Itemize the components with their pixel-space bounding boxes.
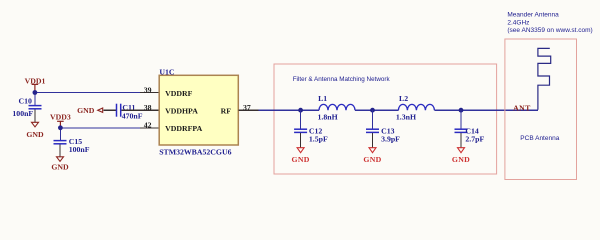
wire L1 to L2 — [355, 109, 398, 111]
svg-text:PCB Antenna: PCB Antenna — [520, 135, 559, 142]
svg-text:GND: GND — [363, 155, 381, 164]
pin C14 to GND — [460, 133, 462, 148]
ground under C14 — [458, 148, 465, 153]
capacitor C11 — [117, 104, 121, 117]
svg-text:GND: GND — [291, 155, 309, 164]
wire junction down to C14 — [460, 110, 462, 129]
svg-text:GND: GND — [77, 106, 95, 115]
wire VDD3 to pin 42 — [60, 127, 140, 129]
ground under C10 — [32, 122, 39, 127]
power port VDD1 — [32, 84, 39, 92]
junction dot VDD1 node — [33, 90, 38, 95]
ground arrow port at C11 — [98, 108, 103, 112]
svg-text:38: 38 — [144, 103, 152, 112]
capacitor C13 — [366, 129, 379, 132]
inductor L2 — [398, 104, 434, 110]
ground under C12 — [297, 148, 304, 153]
svg-text:L2: L2 — [399, 94, 408, 103]
op-amp U1C body — [159, 75, 238, 145]
svg-text:100nF: 100nF — [69, 145, 90, 154]
pin C12 to GND — [300, 133, 302, 148]
pin 42 stub — [140, 127, 159, 129]
antenna meander — [538, 48, 551, 109]
svg-text:39: 39 — [144, 85, 152, 94]
power port VDD3 — [57, 121, 64, 127]
capacitor C10 — [29, 106, 42, 109]
ground under C15 — [57, 157, 64, 162]
svg-text:GND: GND — [26, 130, 44, 139]
svg-text:3.9pF: 3.9pF — [381, 135, 400, 144]
svg-text:VDDRFPA: VDDRFPA — [165, 124, 202, 133]
wire junction down to C13 — [372, 110, 374, 129]
capacitor C12 — [294, 129, 307, 132]
pin 39 stub — [140, 92, 159, 94]
svg-text:GND: GND — [51, 163, 69, 172]
junction node C12 — [298, 108, 303, 113]
pin C13 to GND — [372, 133, 374, 148]
svg-text:RF: RF — [221, 107, 232, 116]
antenna box — [505, 39, 577, 180]
pin C10 to GND — [34, 110, 36, 123]
svg-text:470nF: 470nF — [122, 111, 143, 120]
svg-text:VDD1: VDD1 — [25, 76, 46, 85]
inductor L1 — [319, 104, 355, 110]
svg-text:ANT: ANT — [513, 103, 531, 112]
svg-text:100nF: 100nF — [12, 109, 33, 118]
svg-text:37: 37 — [243, 103, 251, 112]
pin C15 to GND — [59, 145, 61, 157]
capacitor C15 — [54, 141, 67, 144]
svg-text:U1C: U1C — [159, 67, 175, 76]
svg-text:1.8nH: 1.8nH — [318, 113, 338, 122]
svg-text:Meander Antenna: Meander Antenna — [507, 12, 559, 19]
junction dot VDD3 node — [58, 125, 63, 130]
capacitor C14 — [455, 129, 468, 132]
svg-text:Filter & Antenna Matching Netw: Filter & Antenna Matching Network — [293, 76, 391, 83]
junction node C13 — [370, 108, 375, 113]
wire VDD3 junction down to C15 — [59, 128, 61, 141]
svg-text:2.4GHz: 2.4GHz — [507, 19, 529, 26]
svg-text:GND: GND — [452, 155, 470, 164]
svg-text:L1: L1 — [318, 94, 327, 103]
pin C11 to pin 38 — [121, 109, 159, 111]
pin 37 stub — [238, 109, 258, 111]
svg-text:VDDHPA: VDDHPA — [165, 107, 198, 116]
svg-text:VDD3: VDD3 — [50, 112, 71, 121]
svg-text:STM32WBA52CGU6: STM32WBA52CGU6 — [159, 148, 231, 157]
filter box — [274, 64, 497, 174]
svg-text:VDDRF: VDDRF — [165, 89, 193, 98]
svg-text:2.7pF: 2.7pF — [465, 135, 484, 144]
svg-text:1.3nH: 1.3nH — [396, 113, 416, 122]
wire pin 37 to L1 — [259, 109, 319, 111]
svg-text:42: 42 — [144, 121, 152, 130]
wire VDD1 junction down to C10 — [34, 93, 36, 106]
junction node C14 — [459, 108, 464, 113]
svg-text:1.5pF: 1.5pF — [309, 135, 328, 144]
wire L2 to antenna — [434, 109, 538, 111]
svg-text:C10: C10 — [19, 97, 33, 106]
wire VDD1 to pin 39 — [35, 92, 141, 94]
ground under C13 — [369, 148, 376, 153]
svg-text:(see AN3359 on www.st.com): (see AN3359 on www.st.com) — [507, 27, 592, 34]
wire junction down to C12 — [300, 110, 302, 129]
pin GND port to C11 — [103, 109, 116, 111]
